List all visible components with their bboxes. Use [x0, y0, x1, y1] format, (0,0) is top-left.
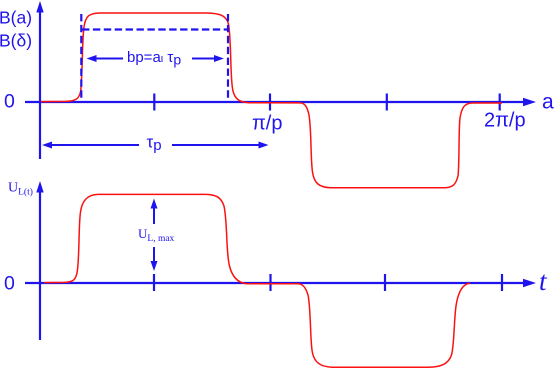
bottom red voltage waveform	[44, 194, 470, 367]
top graph y-axis	[36, 1, 43, 159]
svg-text:a: a	[542, 91, 554, 114]
svg-text:0: 0	[4, 273, 15, 295]
svg-text:bp=aι τp: bp=aι τp	[127, 49, 181, 68]
dashed horizontal B(delta) level	[82, 28, 227, 30]
bottom graph y-axis	[36, 181, 43, 340]
dashed vertical at pulse right edge	[227, 14, 229, 101]
svg-text:2π/p: 2π/p	[484, 109, 526, 131]
svg-text:UL(t): UL(t)	[8, 181, 33, 198]
top axis tick pi/2p	[153, 94, 155, 111]
top graph x-axis	[25, 98, 536, 106]
bp arrow left segment	[87, 55, 124, 62]
svg-text:B(a): B(a)	[0, 8, 32, 28]
UL,max arrow down segment	[151, 247, 158, 271]
svg-text:UL, max: UL, max	[138, 226, 175, 244]
tau-p arrow right segment	[172, 142, 269, 149]
bottom graph x-axis	[25, 279, 536, 287]
svg-text:B(δ): B(δ)	[0, 30, 32, 50]
svg-text:π/p: π/p	[252, 113, 282, 135]
bottom axis tick 4	[501, 274, 503, 291]
svg-text:τp: τp	[147, 133, 162, 155]
top axis tick 3pi/2p	[386, 94, 388, 111]
svg-text:0: 0	[4, 91, 15, 113]
bottom axis tick 3	[384, 274, 386, 291]
dashed vertical at pulse left edge	[80, 14, 82, 101]
bottom axis tick 2	[269, 274, 271, 291]
top axis tick 2pi/p	[499, 94, 501, 111]
top red flux-density waveform	[41, 13, 502, 188]
top axis tick pi/p	[269, 94, 271, 111]
bp arrow right segment	[192, 55, 224, 62]
bottom axis tick 1	[153, 274, 155, 291]
svg-text:t: t	[539, 266, 548, 296]
UL,max arrow up segment	[151, 199, 158, 225]
tau-p arrow left segment	[42, 142, 139, 149]
